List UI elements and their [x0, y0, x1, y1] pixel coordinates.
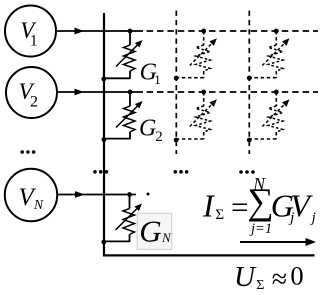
svg-text:I: I: [202, 188, 215, 224]
wire G2 bottom to bus: [104, 138, 130, 140]
svg-text:1: 1: [154, 72, 161, 87]
junction dot rowN/GN top: [127, 192, 132, 197]
svg-text:G: G: [139, 115, 156, 141]
svg-text:U: U: [234, 261, 257, 293]
svg-text:N: N: [161, 230, 172, 245]
wire row 2 (V2 output): [58, 91, 144, 93]
junction dot row1/G1 top: [128, 29, 133, 34]
dashed column bus 2: [248, 11, 250, 154]
arrowhead row 1: [75, 28, 85, 35]
svg-text:N: N: [33, 197, 44, 212]
wire G1 bottom to bus: [104, 77, 130, 79]
wire cell r2c2 bottom to column 2 (dashed): [249, 138, 276, 140]
memristor cell row1 col1 (dashed): [190, 31, 217, 78]
label G1: [140, 60, 161, 88]
junction dot bus/G1 bottom: [101, 77, 106, 82]
wire cell r1c2 bottom to column 2 (dashed): [249, 77, 276, 79]
junction dot column1/cell r1c1 bottom: [174, 76, 179, 81]
ellipsis below dashed column 1: [174, 170, 189, 174]
svg-text:G: G: [139, 213, 161, 248]
voltage source VN: [5, 169, 57, 221]
label I_sigma summation formula: [202, 174, 316, 237]
ellipsis below summing bus: [93, 170, 108, 174]
wire GN bottom to bus: [104, 240, 130, 242]
wire cell r1c1 bottom to column 1 (dashed): [176, 77, 203, 79]
memristor G1: [116, 31, 143, 79]
junction dot column1/cell r2c1 bottom: [174, 138, 179, 143]
junction dot row2/cell r2c2 top: [274, 90, 279, 95]
dotted continuation row N: [147, 193, 150, 196]
arrowhead row N: [75, 191, 85, 198]
wire cell r2c1 bottom to column 1 (dashed): [176, 138, 203, 140]
junction dot row2/cell r2c1 top: [201, 90, 206, 95]
memristor G2: [116, 92, 143, 140]
dashed wire row 2 extension: [147, 91, 318, 93]
wire row 1 (V1 output): [57, 30, 144, 32]
junction dot row1/cell r1c2 top: [274, 29, 279, 34]
memristor cell row2 col1 (dashed): [190, 92, 217, 139]
memristor cell row2 col2 (dashed): [262, 92, 289, 139]
memristor cell row1 col2 (dashed): [262, 31, 289, 78]
junction dot row1/cell r1c1 top: [201, 29, 206, 34]
svg-text:≈: ≈: [272, 264, 287, 295]
ellipsis between V2 and VN: [20, 150, 35, 154]
svg-text:j=1: j=1: [249, 221, 272, 237]
label G2: [139, 115, 163, 145]
svg-text:Σ: Σ: [215, 207, 224, 223]
label U_sigma approx 0: [234, 261, 304, 295]
junction dot bus/G2 bottom: [102, 137, 107, 142]
svg-text:N: N: [252, 174, 266, 194]
junction dot column2/cell r1c2 bottom: [247, 76, 252, 81]
junction dot bus/GN bottom: [101, 240, 106, 245]
junction dot column2/cell r2c2 bottom: [247, 138, 252, 143]
memristor GN: [116, 195, 143, 243]
svg-text:1: 1: [30, 32, 38, 49]
svg-text:2: 2: [30, 94, 38, 111]
svg-text:2: 2: [155, 129, 163, 145]
ellipsis below dashed column 2: [239, 170, 255, 174]
dashed column bus 1: [175, 11, 177, 154]
current arrow I_sigma direction: [240, 238, 316, 246]
summing bus wire (vertical + bottom horizontal): [104, 13, 315, 255]
svg-text:Σ: Σ: [256, 278, 264, 293]
wire row N (VN output): [57, 194, 136, 196]
junction dot row2/G2 top: [128, 90, 133, 95]
voltage source V2: [6, 67, 57, 118]
svg-text:0: 0: [290, 261, 303, 291]
dashed wire row 1 extension: [147, 30, 318, 32]
label GN (boxed): [137, 213, 172, 249]
arrowhead row 2: [75, 89, 85, 96]
voltage source V1: [5, 6, 56, 57]
svg-text:=: =: [231, 190, 248, 225]
